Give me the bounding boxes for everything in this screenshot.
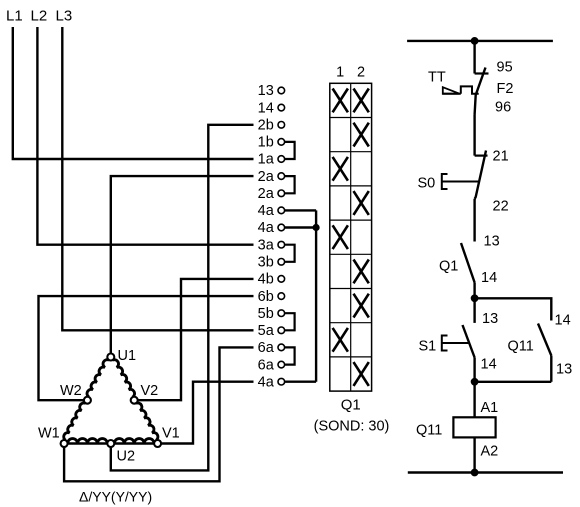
svg-text:6a: 6a <box>258 340 275 356</box>
terminal 2a circle and label <box>258 169 285 185</box>
contact Q1 moving contact <box>461 243 475 283</box>
svg-text:1b: 1b <box>258 135 274 151</box>
svg-text:Q11: Q11 <box>416 423 442 439</box>
X mark row 4 col 2 <box>354 191 369 215</box>
svg-text:1: 1 <box>336 65 344 81</box>
motor terminal W2 <box>84 397 91 404</box>
terminal 2a circle and label <box>258 186 285 202</box>
svg-text:V1: V1 <box>162 426 180 442</box>
label 95 <box>497 60 513 76</box>
label 13 (Q1) <box>484 234 500 250</box>
terminal 6a circle and label <box>258 357 285 373</box>
motor winding side U1-W2-W1 <box>64 360 109 441</box>
X mark row 2 col 2 <box>354 123 369 147</box>
wire rail to F2 <box>473 41 475 74</box>
svg-text:22: 22 <box>493 199 509 215</box>
label U1 <box>118 348 137 364</box>
label winding configuration <box>79 489 152 505</box>
contact S1 moving contact <box>463 325 475 358</box>
svg-text:2b: 2b <box>258 118 274 134</box>
wire W2 to terminal 6b <box>39 296 254 400</box>
link terminals 3a-3b <box>284 245 294 262</box>
wire S0 to Q1 <box>473 199 475 242</box>
svg-text:W1: W1 <box>38 426 60 442</box>
terminal 2b circle and label <box>258 118 285 134</box>
label S0 <box>418 176 436 192</box>
junction below Q1 <box>471 295 478 302</box>
label S1 <box>419 339 437 355</box>
motor winding side U1-V2-V1 <box>112 360 157 441</box>
svg-text:5b: 5b <box>258 306 274 322</box>
svg-text:21: 21 <box>493 149 509 165</box>
wire L1 to terminal 1a <box>13 27 254 159</box>
label 21 <box>493 149 509 165</box>
contact F2 fixed terminal <box>475 72 489 74</box>
label 96 <box>495 100 511 116</box>
coil Q11 <box>453 417 495 437</box>
svg-text:L2: L2 <box>31 8 48 25</box>
wire Q11 contact to lower junction <box>550 356 552 382</box>
svg-text:14: 14 <box>481 270 497 286</box>
svg-text:(SOND: 30): (SOND: 30) <box>314 419 390 435</box>
X mark row 1 col 1 <box>333 89 348 113</box>
terminal 1b circle and label <box>258 135 285 151</box>
X mark row 9 col 2 <box>354 362 369 386</box>
label A2 <box>481 444 499 460</box>
terminal 6a circle and label <box>258 340 285 356</box>
label A1 <box>481 400 499 416</box>
wire terminal 4a (row8) to 4a bus <box>284 209 316 211</box>
svg-text:A2: A2 <box>481 444 499 460</box>
motor terminal U2 <box>107 440 114 447</box>
contact S0 fixed terminal <box>475 155 488 157</box>
svg-text:Q1: Q1 <box>341 397 361 414</box>
svg-text:2: 2 <box>357 65 365 81</box>
label Q11 (contact) <box>508 339 534 355</box>
link terminals 6a-6a <box>284 347 294 364</box>
svg-text:14: 14 <box>555 313 571 329</box>
svg-text:L1: L1 <box>6 8 23 25</box>
svg-text:V2: V2 <box>141 383 159 399</box>
svg-text:Q11: Q11 <box>508 339 534 355</box>
X mark row 8 col 1 <box>333 328 348 352</box>
label 13 (Q11 contact) <box>556 362 572 378</box>
svg-text:S0: S0 <box>418 176 436 192</box>
matrix column header 1 <box>336 65 344 81</box>
junction 4a bus <box>313 224 319 230</box>
svg-text:4a: 4a <box>258 374 275 390</box>
label L3 <box>56 8 73 25</box>
wire Q1 to junction <box>473 283 475 299</box>
label W2 <box>60 383 82 399</box>
wire L2 to terminal 3a <box>37 27 253 245</box>
label Q11 (coil) <box>416 423 442 439</box>
X mark row 7 col 2 <box>354 294 369 318</box>
terminal 4a circle and label <box>258 220 285 236</box>
switch matrix Q1 grid <box>330 83 372 391</box>
svg-text:A1: A1 <box>481 400 499 416</box>
link terminals 5b-5a <box>284 313 294 330</box>
label L1 <box>6 8 23 25</box>
svg-text:13: 13 <box>482 311 498 327</box>
wire U2 to terminal 2b <box>111 125 254 471</box>
label V1 <box>162 426 180 442</box>
terminal 1a circle and label <box>258 152 285 168</box>
terminal 14 circle and label <box>258 100 285 116</box>
junction top rail <box>471 38 478 45</box>
pushbutton actuator S0 <box>442 174 479 189</box>
wire 4a bus vertical <box>315 210 317 381</box>
wire L3 to terminal 5a <box>62 27 253 330</box>
contact F2 moving contact <box>475 68 486 115</box>
svg-text:13: 13 <box>556 362 572 378</box>
label TT <box>428 70 446 86</box>
terminal 13 circle and label <box>258 83 285 99</box>
thermal release symbol TT <box>442 86 478 93</box>
X mark row 5 col 1 <box>333 225 348 249</box>
pushbutton actuator S1 <box>442 336 470 351</box>
link terminals 1b-1a <box>284 142 294 159</box>
svg-text:2a: 2a <box>258 169 275 185</box>
wire lower branch <box>475 381 552 383</box>
X mark row 6 col 2 <box>354 260 369 284</box>
svg-text:Δ/YY(Y/YY): Δ/YY(Y/YY) <box>79 489 152 505</box>
wire junction to coil A1 <box>473 382 475 418</box>
wire V2 to terminal 4b <box>138 279 254 400</box>
top supply rail <box>407 40 553 42</box>
motor winding bottom line W1-V1 <box>68 442 155 444</box>
matrix column header 2 <box>357 65 365 81</box>
motor terminal U1 <box>107 354 114 361</box>
svg-text:Q1: Q1 <box>439 259 458 275</box>
label Q1 (contact) <box>439 259 458 275</box>
svg-text:W2: W2 <box>60 383 82 399</box>
X mark row 3 col 1 <box>333 157 348 181</box>
label F2 <box>497 81 514 97</box>
svg-text:L3: L3 <box>56 8 73 25</box>
svg-text:S1: S1 <box>419 339 437 355</box>
svg-text:6a: 6a <box>258 357 275 373</box>
svg-text:1a: 1a <box>258 152 275 168</box>
svg-text:13: 13 <box>258 83 274 99</box>
label 13 (S1) <box>482 311 498 327</box>
svg-text:TT: TT <box>428 70 446 86</box>
svg-text:4a: 4a <box>258 220 275 236</box>
X mark row 1 col 2 <box>354 89 369 113</box>
contact S0 moving contact <box>475 151 486 200</box>
wire coil A2 to bottom rail <box>473 437 475 472</box>
terminal 6b circle and label <box>258 289 285 305</box>
motor terminal V1 <box>154 440 161 447</box>
terminal 5b circle and label <box>258 306 285 322</box>
svg-text:5a: 5a <box>258 323 275 339</box>
svg-text:2a: 2a <box>258 186 275 202</box>
svg-text:U2: U2 <box>117 449 136 465</box>
wire terminal 4a (row9) to 4a bus <box>284 226 316 228</box>
label W1 <box>38 426 60 442</box>
wire F2 to S0 <box>473 115 475 156</box>
wire V1 to terminal 4a <box>161 382 253 444</box>
junction above coil <box>471 378 478 385</box>
label 14 (Q1) <box>481 270 497 286</box>
bottom supply rail <box>408 471 563 473</box>
svg-text:3b: 3b <box>258 255 274 271</box>
svg-text:F2: F2 <box>497 81 514 97</box>
terminal 3a circle and label <box>258 237 285 253</box>
wire U1 to terminal 2a <box>111 176 254 353</box>
terminal 3b circle and label <box>258 255 285 271</box>
label 22 <box>493 199 509 215</box>
label Q1 (switch) <box>341 397 361 414</box>
wire junction to S1 <box>473 298 475 323</box>
wire S1 to lower junction <box>473 358 475 382</box>
svg-text:13: 13 <box>484 234 500 250</box>
motor terminal W1 <box>61 440 68 447</box>
wire terminal 4a (bottom) to 4a bus <box>284 381 316 383</box>
terminal 5a circle and label <box>258 323 285 339</box>
label L2 <box>31 8 48 25</box>
label 14 (Q11 contact) <box>555 313 571 329</box>
svg-text:4a: 4a <box>258 203 275 219</box>
label U2 <box>117 449 136 465</box>
junction bottom rail <box>471 469 478 476</box>
terminal 4a circle and label <box>258 203 285 219</box>
svg-text:6b: 6b <box>258 289 274 305</box>
motor terminal V2 <box>131 397 138 404</box>
label 14 (S1) <box>481 357 497 373</box>
label SOND 30 <box>314 419 390 435</box>
svg-text:U1: U1 <box>118 348 137 364</box>
svg-text:4b: 4b <box>258 272 274 288</box>
svg-text:3a: 3a <box>258 237 275 253</box>
link terminals 2a-2a <box>284 176 294 193</box>
wire junction to Q11 branch <box>475 298 552 320</box>
svg-text:96: 96 <box>495 100 511 116</box>
motor winding coils U2-V1 <box>114 439 154 444</box>
terminal 4a circle and label <box>258 374 285 390</box>
wire W1 to terminal 6a <box>64 347 253 481</box>
motor winding coils W1-U2 <box>68 439 108 444</box>
svg-text:95: 95 <box>497 60 513 76</box>
svg-text:14: 14 <box>481 357 497 373</box>
svg-text:14: 14 <box>258 100 274 116</box>
terminal 4b circle and label <box>258 272 285 288</box>
label V2 <box>141 383 159 399</box>
contact Q11 moving contact <box>538 324 551 356</box>
